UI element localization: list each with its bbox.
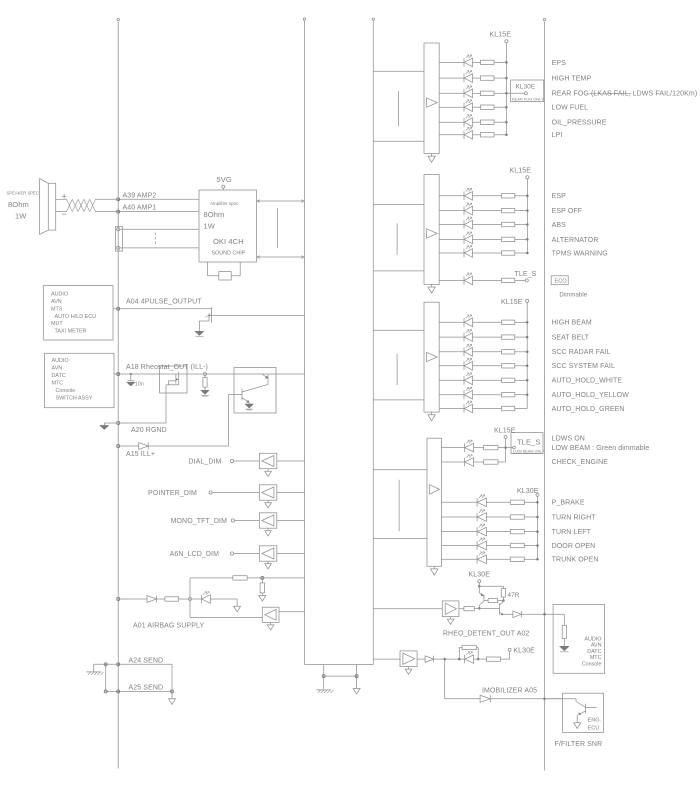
resistor bank5 row 1 bbox=[510, 500, 524, 504]
wire bank5 row 1 from driver bbox=[442, 501, 478, 503]
wire controller ground stub right bbox=[355, 665, 358, 689]
wire diode to LED node bbox=[434, 658, 460, 661]
ground A25 bbox=[169, 691, 176, 704]
label DOOR OPEN bbox=[552, 543, 596, 550]
svg-text:REAR FOG ONLY: REAR FOG ONLY bbox=[512, 97, 544, 102]
diode D7 imobilizer bbox=[480, 695, 490, 702]
label KL15E bank4 bbox=[494, 428, 516, 435]
power KL15E bank4 terminal bbox=[504, 436, 507, 448]
wire bank1 row 3 resistor to rail bbox=[494, 92, 506, 94]
LED D6 rheostat indicator bbox=[459, 652, 473, 664]
svg-text:KL30E: KL30E bbox=[517, 488, 539, 495]
power 5VG bbox=[217, 175, 232, 190]
wire A18 Rheostat_OUT bbox=[114, 373, 305, 376]
svg-text:8Ohm: 8Ohm bbox=[8, 200, 29, 209]
wire bank5 row 2 to resistor bbox=[486, 516, 510, 518]
svg-text:MUT: MUT bbox=[51, 321, 63, 327]
wire R10 to KL30E terminal bbox=[501, 651, 510, 659]
node TLE_S terminal bbox=[525, 279, 528, 282]
svg-text:1W: 1W bbox=[204, 222, 216, 231]
label POINTER_DIM bbox=[148, 490, 197, 497]
op-amp driver U4 bbox=[427, 438, 442, 566]
svg-text:AUTO_HOLD_WHITE: AUTO_HOLD_WHITE bbox=[552, 378, 623, 385]
wire bank3 row 6 LED to resistor bbox=[473, 394, 502, 396]
wire POINTER_DIM input bbox=[212, 492, 259, 494]
node airbag junction bbox=[189, 598, 192, 601]
wire cable mark bundle 3 bbox=[396, 354, 398, 385]
label A24 SEND bbox=[129, 657, 164, 664]
svg-text:+: + bbox=[62, 192, 67, 202]
LED bank3 row 4 bbox=[464, 358, 473, 370]
resistor bank1 row 2 bbox=[481, 76, 495, 80]
wire imobilizer down bbox=[445, 659, 480, 699]
LED TLE_S dimmer bbox=[464, 273, 473, 285]
resistor bank1 row 5 bbox=[481, 120, 495, 124]
wire airbag node up bbox=[189, 578, 191, 598]
node bank5 rail junctions bbox=[536, 501, 539, 561]
wire bank1 row 2 resistor to rail bbox=[494, 77, 506, 79]
node A18 junction bbox=[204, 373, 207, 376]
label SCC SYSTEM FAIL bbox=[552, 363, 615, 370]
svg-text:MTC: MTC bbox=[52, 381, 64, 387]
wire cable mark bundle 2 bbox=[396, 223, 398, 254]
wire bank2 row 3 from driver bbox=[439, 224, 464, 226]
svg-text:AUDIO: AUDIO bbox=[52, 358, 69, 364]
wire LED to series resistor bbox=[474, 658, 487, 660]
ground buffer RHEO bbox=[447, 617, 454, 625]
wire A24 down right side bbox=[171, 664, 173, 691]
svg-text:ALTERNATOR: ALTERNATOR bbox=[552, 237, 599, 244]
wire bank4 row1 to TLE_S terminal bbox=[498, 446, 512, 449]
svg-text:CHECK_ENGINE: CHECK_ENGINE bbox=[552, 459, 609, 466]
wire bank3 row 5 LED to resistor bbox=[473, 379, 502, 381]
op-amp buffer POINTER_DIM bbox=[259, 485, 276, 500]
svg-text:MTC: MTC bbox=[590, 655, 602, 661]
wire bank2 row 4 from driver bbox=[439, 238, 464, 240]
node central box left edge bbox=[303, 18, 305, 665]
resistor bank1 row 6 bbox=[481, 133, 495, 137]
wire bank3 row 3 from driver bbox=[439, 351, 464, 353]
wire bank3 row 2 LED to resistor bbox=[473, 336, 502, 338]
svg-text:5VG: 5VG bbox=[217, 175, 232, 184]
LED bank1 row 5 bbox=[464, 115, 473, 127]
power KL30E terminal mid bbox=[508, 648, 511, 651]
resistor bank2 row 4 bbox=[502, 237, 515, 241]
op-amp driver U3 bbox=[424, 302, 439, 412]
wire A20 to ground bbox=[104, 423, 116, 425]
ground driver U3 bbox=[428, 412, 435, 421]
wire MONO_TFT_DIM input bbox=[235, 520, 260, 522]
svg-text:ECO: ECO bbox=[555, 279, 568, 285]
label 8Ohm 1W speaker bbox=[8, 200, 29, 221]
ground driver U1 bbox=[428, 154, 435, 163]
LED bank1 row 4 bbox=[464, 100, 473, 112]
wire FET gate lead bbox=[169, 381, 176, 385]
label ALTERNATOR bbox=[552, 237, 599, 244]
wire bank1 row 6 from driver bbox=[439, 134, 464, 136]
power KL30E bank5 terminal bbox=[536, 493, 539, 559]
svg-text:AVN: AVN bbox=[591, 643, 602, 649]
label CHECK_ENGINE bbox=[552, 459, 609, 466]
speaker SP1 bbox=[40, 179, 56, 235]
label Dimmable ECO bbox=[559, 292, 587, 298]
wire bank5 row 3 from driver bbox=[442, 531, 478, 533]
wire bank1 row 5 from driver bbox=[439, 121, 464, 123]
resistor R8 base drive bbox=[464, 607, 474, 611]
label DIAL_DIM bbox=[188, 459, 221, 466]
resistor bank5 row 4 bbox=[510, 543, 524, 547]
op-amp buffer MONO_TFT_DIM bbox=[259, 513, 276, 528]
wire connector bundle 1 bottom bbox=[373, 140, 424, 142]
svg-text:TLE_S: TLE_S bbox=[515, 271, 537, 278]
resistor R7 base bbox=[484, 599, 503, 603]
svg-text:MONO_TFT_DIM: MONO_TFT_DIM bbox=[171, 518, 227, 525]
wire bank2 row 1 LED to resistor bbox=[473, 195, 502, 197]
LED bank5 row 2 bbox=[477, 510, 486, 522]
wire A15 to darlington base bbox=[148, 394, 242, 446]
wire bank3 row 2 from driver bbox=[439, 336, 464, 338]
connector box audio AVN DATC list bbox=[44, 353, 114, 407]
node 4TR base junction bbox=[478, 607, 481, 610]
wire A40 AMP1 bbox=[96, 210, 200, 213]
node bank1 rail junctions bbox=[505, 61, 508, 136]
wire bank3 row 3 LED to resistor bbox=[473, 351, 502, 353]
wire bank4 row 1 to resistor bbox=[474, 447, 484, 449]
svg-text:A39 AMP2: A39 AMP2 bbox=[123, 192, 157, 199]
resistor bank1 row 4 bbox=[481, 105, 495, 109]
wire DIAL_DIM input bbox=[234, 460, 260, 462]
connector box ECO bbox=[551, 276, 568, 285]
wire bank4 row 2 to resistor bbox=[474, 461, 484, 463]
LED bank5 row 5 bbox=[477, 552, 486, 564]
wire bank1 row 2 from driver bbox=[439, 77, 464, 79]
LED bank2 row 3 bbox=[464, 217, 473, 229]
label MONO_TFT_DIM bbox=[171, 518, 227, 525]
label AUTO_HOLD_GREEN bbox=[552, 406, 625, 413]
wire buffer to diode bbox=[417, 658, 425, 660]
label P_BRAKE bbox=[552, 500, 585, 507]
wire bank5 row 5 to resistor bbox=[486, 558, 510, 560]
transistor Q7 eng ecu bbox=[545, 699, 597, 723]
wire bank4 row 1 from driver bbox=[442, 447, 465, 449]
wire bank2 row 1 resistor to rail bbox=[515, 195, 528, 197]
LED bank4 row 2 bbox=[464, 455, 473, 467]
node bank2 rail junctions bbox=[526, 195, 529, 255]
svg-text:A25 SEND: A25 SEND bbox=[129, 684, 164, 691]
svg-text:SEAT BELT: SEAT BELT bbox=[552, 335, 590, 342]
wire A01 from bus bbox=[117, 598, 147, 601]
wire resistor to node bbox=[179, 598, 202, 600]
resistor bank3 row 4 bbox=[502, 364, 515, 368]
svg-text:ESP OFF: ESP OFF bbox=[552, 208, 583, 215]
op-amp buffer DIAL_DIM bbox=[259, 453, 276, 468]
wire bank1 row 3 LED to resistor bbox=[473, 92, 481, 94]
svg-text:EPS: EPS bbox=[552, 60, 567, 67]
label TPMS WARNING bbox=[552, 250, 608, 257]
svg-text:KL30E: KL30E bbox=[516, 84, 536, 91]
svg-text:10n: 10n bbox=[135, 381, 144, 387]
wire bank1 row 6 resistor to rail bbox=[494, 134, 506, 136]
label ENG ECU bbox=[588, 718, 602, 732]
LED bank5 row 4 bbox=[477, 538, 486, 550]
ground earth A24 bbox=[86, 664, 103, 675]
label LOW FUEL bbox=[552, 105, 589, 112]
LED bank5 row 1 bbox=[477, 495, 486, 507]
transistor Q1 darlington upper bbox=[262, 374, 268, 385]
label KL30E bank5 bbox=[517, 488, 539, 495]
svg-text:DIAL_DIM: DIAL_DIM bbox=[188, 459, 221, 466]
svg-text:MTS: MTS bbox=[51, 306, 63, 312]
label F/FILTER SNR bbox=[555, 741, 603, 748]
svg-text:RHEO_DETENT_OUT A02: RHEO_DETENT_OUT A02 bbox=[443, 631, 530, 638]
wire imobilizer to ENG ECU bbox=[490, 698, 562, 701]
wire bank2 row 5 from driver bbox=[439, 252, 464, 254]
diode D4 rheo out bbox=[513, 611, 521, 618]
label OIL_PRESSURE bbox=[552, 120, 607, 127]
ground driver U2 bbox=[428, 284, 435, 293]
ground resistor R2 bbox=[201, 390, 210, 396]
amplifier U2 sound chip box bbox=[199, 190, 257, 262]
resistor R10 KL30E series bbox=[486, 657, 500, 661]
node bank3 rail junctions bbox=[526, 321, 529, 396]
wire bank3 row 1 from driver bbox=[439, 321, 464, 323]
connector box KL30E rear fog bbox=[511, 80, 544, 102]
wire bank5 row 3 to rail bbox=[524, 531, 537, 533]
wire buffer A01 input from controller bbox=[279, 611, 305, 613]
ground buffer A01 bbox=[267, 622, 274, 630]
wire bank3 row 3 resistor to rail bbox=[515, 351, 527, 353]
ground darlington emitter bbox=[245, 404, 254, 410]
label TLE_S bank2 bbox=[515, 271, 537, 278]
wire bank1 row 4 LED to resistor bbox=[473, 106, 481, 108]
svg-text:ECU: ECU bbox=[588, 726, 600, 732]
wire bank3 row 5 resistor to rail bbox=[515, 379, 527, 381]
label amplifier spec bbox=[210, 201, 239, 206]
wire bank4 row 2 from driver bbox=[442, 461, 465, 463]
wire bank5 row 2 to rail bbox=[524, 516, 537, 518]
wire connector bundle 3 bottom bbox=[373, 399, 424, 401]
diode D5 imobilizer feed bbox=[425, 656, 433, 663]
label TRUNK OPEN bbox=[552, 557, 599, 564]
label A15 ILL+ bbox=[126, 451, 155, 458]
wire POINTER_DIM output bbox=[277, 492, 305, 494]
op-amp driver U1 bbox=[424, 43, 439, 154]
wire cable mark amplifier bus bbox=[277, 208, 279, 248]
label SEAT BELT bbox=[552, 335, 590, 342]
wire bank2 row 5 resistor to rail bbox=[515, 252, 528, 254]
resistor bank3 row 3 bbox=[502, 350, 515, 354]
svg-text:LPI: LPI bbox=[552, 132, 563, 139]
svg-text:KL15E: KL15E bbox=[501, 299, 523, 306]
LED bank1 row 3 bbox=[464, 86, 473, 98]
transistor Q6 lower NPN bbox=[479, 601, 503, 615]
label REAR FOG ONLY bbox=[512, 97, 544, 102]
svg-text:−: − bbox=[62, 209, 67, 219]
mosfet box U3 bbox=[160, 366, 187, 393]
LED bank3 row 1 bbox=[464, 315, 473, 327]
label A25 SEND bbox=[129, 684, 164, 691]
power KL15E bank2 terminal bbox=[526, 176, 529, 253]
wire RHEO LED row from controller bbox=[373, 658, 400, 660]
label LPI bbox=[552, 132, 563, 139]
LED bank3 row 3 bbox=[464, 344, 473, 356]
wire A6N_LCD_DIM input bbox=[234, 553, 260, 555]
wire bank5 row 4 from driver bbox=[442, 545, 478, 547]
LED bank5 row 3 bbox=[477, 524, 486, 536]
ground A04 gate bbox=[195, 331, 204, 336]
wire bank5 row 2 from driver bbox=[442, 516, 478, 518]
label 47R bbox=[508, 592, 520, 599]
wire bank5 row 1 to resistor bbox=[486, 501, 510, 503]
wire bank3 row 7 resistor to rail bbox=[515, 408, 527, 410]
svg-text:KL15E: KL15E bbox=[490, 32, 512, 39]
svg-text:LOW BEAM ONLY: LOW BEAM ONLY bbox=[513, 450, 545, 454]
wire bank4 row2 jog up bbox=[498, 448, 506, 462]
wire airbag node down to buffer bbox=[190, 601, 262, 618]
svg-text:Amplifier spec: Amplifier spec bbox=[210, 201, 239, 206]
resistor bank3 row 1 bbox=[502, 320, 515, 324]
wire 47R to node X bbox=[502, 597, 505, 602]
LED bank2 row 2 bbox=[464, 203, 473, 215]
wire bank1 row 1 resistor to rail bbox=[494, 61, 506, 63]
svg-text:A6N_LCD_DIM: A6N_LCD_DIM bbox=[170, 551, 219, 558]
svg-text:AUDIO: AUDIO bbox=[51, 292, 68, 298]
svg-text:HIGH TEMP: HIGH TEMP bbox=[552, 76, 592, 83]
resistor bank1 row 1 bbox=[481, 60, 495, 64]
svg-text:LOW FUEL: LOW FUEL bbox=[552, 105, 589, 112]
wire bank5 row 1 to rail bbox=[524, 501, 537, 503]
resistor R9 parallel LED bbox=[458, 645, 479, 660]
resistor bank3 row 7 bbox=[502, 406, 515, 410]
LED bank3 row 7 bbox=[464, 401, 473, 413]
wire bank5 row 4 to rail bbox=[524, 545, 537, 547]
wire MONO_TFT_DIM output bbox=[277, 520, 305, 522]
svg-text:LDWS ON: LDWS ON bbox=[552, 435, 585, 442]
svg-text:SCC SYSTEM FAIL: SCC SYSTEM FAIL bbox=[552, 363, 615, 370]
wire bank3 row 6 from driver bbox=[439, 394, 464, 396]
label KL30E 4TR bbox=[469, 572, 491, 579]
svg-text:1W: 1W bbox=[15, 212, 27, 221]
ground buffer DIAL_DIM bbox=[265, 469, 272, 477]
ground airbag LED bbox=[234, 606, 241, 612]
wire A6N_LCD_DIM output bbox=[277, 553, 305, 555]
svg-text:AUTO_HOLD_YELLOW: AUTO_HOLD_YELLOW bbox=[552, 392, 630, 399]
label SCC RADAR FAIL bbox=[552, 349, 611, 356]
wire RHEO buffer to resistor bbox=[459, 608, 464, 610]
resistor R11 audio pulldown bbox=[562, 625, 566, 638]
svg-text:HIGH BEAM: HIGH BEAM bbox=[552, 320, 592, 327]
svg-text:P_BRAKE: P_BRAKE bbox=[552, 500, 585, 507]
svg-text:F/FILTER SNR: F/FILTER SNR bbox=[555, 741, 603, 748]
op-amp buffer RHEO bbox=[442, 601, 459, 617]
resistor bank1 row 3 bbox=[481, 91, 495, 95]
resistor bank3 row 2 bbox=[502, 335, 515, 339]
wire node to 47R bbox=[479, 586, 503, 588]
label ABS bbox=[552, 222, 567, 229]
resistor bank4 row 1 bbox=[484, 445, 498, 449]
label AUDIO AVN DATC MTC Console SWITCH ASSY bbox=[52, 358, 93, 401]
wire R4 to controller bbox=[247, 576, 304, 579]
svg-text:A18 Rheostat_OUT (ILL-): A18 Rheostat_OUT (ILL-) bbox=[126, 364, 208, 371]
svg-text:IMOBILIZER A05: IMOBILIZER A05 bbox=[482, 687, 537, 694]
wire cable mark bundle 4 bbox=[398, 480, 400, 532]
svg-text:AUTO H/LD ECU: AUTO H/LD ECU bbox=[55, 314, 97, 320]
svg-text:SOUND CHIP: SOUND CHIP bbox=[212, 251, 246, 257]
label ESP OFF bbox=[552, 208, 583, 215]
wire FET gate to ground bbox=[199, 321, 209, 331]
label plus terminal bbox=[62, 192, 67, 202]
wire connector bundle 4 bottom bbox=[373, 537, 427, 539]
label LDWS ON bbox=[552, 435, 585, 442]
wire speaker plus bbox=[56, 198, 67, 200]
resistor bank5 row 5 bbox=[510, 557, 524, 561]
ground earth controller bbox=[316, 690, 333, 693]
node central box right edge bbox=[372, 18, 374, 665]
label A01 AIRBAG SUPPLY bbox=[133, 623, 204, 630]
svg-text:TRUNK OPEN: TRUNK OPEN bbox=[552, 557, 599, 564]
ground resistor R5 bbox=[259, 595, 266, 601]
wire bank1 row 4 resistor to rail bbox=[494, 106, 506, 108]
svg-text:Console: Console bbox=[582, 662, 602, 668]
label AUDIO AVN MTS AUTO H/LD ECU MUT TAXI METER bbox=[51, 292, 96, 335]
wire connector bundle 4 top bbox=[373, 469, 427, 471]
svg-text:TURN RIGHT: TURN RIGHT bbox=[552, 514, 597, 521]
svg-text:ENG.: ENG. bbox=[588, 718, 602, 724]
svg-text:A15 ILL+: A15 ILL+ bbox=[126, 451, 155, 458]
diode D2 airbag bbox=[147, 596, 157, 603]
transistor Q3 dimmer FET bbox=[176, 372, 179, 385]
resistor bank2 row 5 bbox=[502, 251, 515, 255]
wire bank2 row 3 LED to resistor bbox=[473, 224, 502, 226]
wire bus arrow top amplifier to controller bbox=[257, 200, 305, 203]
label HIGH TEMP bbox=[552, 76, 592, 83]
label KL15E bank3 bbox=[501, 299, 523, 306]
label REAR FOG (LKAS FAIL, bbox=[552, 91, 698, 98]
diode D1 A15 bbox=[139, 443, 149, 450]
wire A39 AMP2 bbox=[96, 198, 200, 201]
wire bank1 row 1 LED to resistor bbox=[473, 61, 481, 63]
label EPS bbox=[552, 60, 567, 67]
op-amp buffer A02 row bbox=[400, 651, 417, 667]
wire DIAL_DIM output bbox=[277, 460, 305, 462]
node DIAL_DIM input terminal bbox=[230, 459, 233, 462]
label RHEO_DETENT_OUT A02 bbox=[443, 631, 530, 638]
wire bank2 row 4 resistor to rail bbox=[515, 238, 528, 240]
wire LED cathode to ground bbox=[211, 599, 237, 606]
svg-text:47R: 47R bbox=[508, 592, 520, 599]
transistor Q5 upper PNP bbox=[479, 586, 484, 608]
svg-text:DOOR OPEN: DOOR OPEN bbox=[552, 543, 596, 550]
ground A20 bbox=[100, 425, 109, 429]
wire A25 SEND bbox=[104, 690, 173, 693]
svg-text:A04 4PULSE_OUTPUT: A04 4PULSE_OUTPUT bbox=[126, 299, 202, 306]
inductor L1 voice coil bbox=[67, 199, 96, 211]
LED bank1 row 1 bbox=[464, 55, 473, 67]
wire bank2 row 2 from driver bbox=[439, 210, 464, 212]
label A39 AMP2 bbox=[123, 192, 157, 199]
label LOW BEAM ONLY bbox=[513, 450, 546, 454]
label ECO bbox=[555, 279, 568, 285]
label A6N_LCD_DIM bbox=[170, 551, 219, 558]
label AUTO_HOLD_WHITE bbox=[552, 378, 623, 385]
svg-text:Dimmable: Dimmable bbox=[559, 292, 587, 298]
LED bank2 row 1 bbox=[464, 188, 473, 200]
wire bank2 row 3 resistor to rail bbox=[515, 224, 528, 226]
wire bank3 row 7 LED to resistor bbox=[473, 408, 502, 410]
label TURN LEFT bbox=[552, 529, 592, 536]
svg-text:A24 SEND: A24 SEND bbox=[129, 657, 164, 664]
resistor bank3 row 5 bbox=[502, 378, 515, 382]
